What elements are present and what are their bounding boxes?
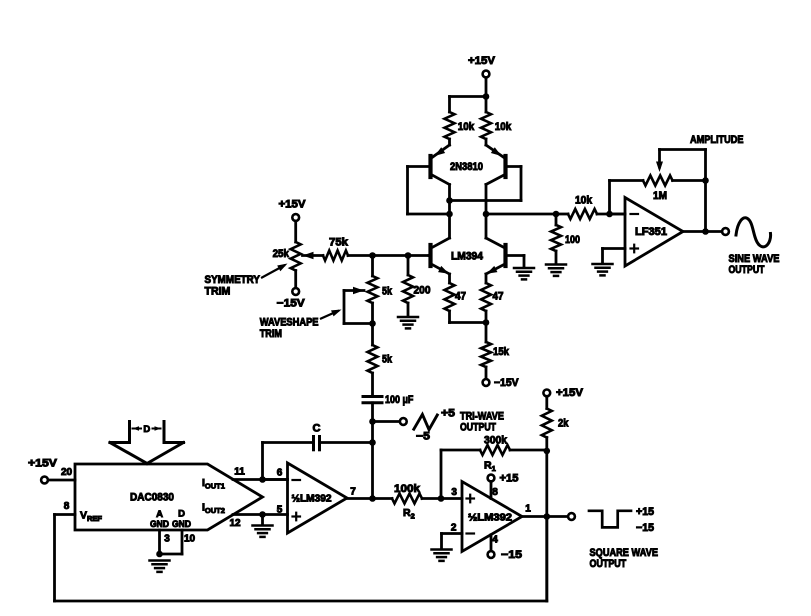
svg-text:+5: +5 — [441, 408, 455, 420]
svg-text:75k: 75k — [329, 237, 349, 249]
svg-text:+15: +15 — [636, 506, 654, 518]
svg-text:15k: 15k — [493, 346, 510, 358]
svg-text:3: 3 — [164, 534, 170, 545]
svg-text:47: 47 — [455, 291, 466, 303]
svg-text:100 μF: 100 μF — [385, 394, 414, 406]
svg-text:GND: GND — [150, 519, 169, 530]
svg-text:6: 6 — [277, 468, 283, 479]
svg-text:11: 11 — [234, 467, 245, 478]
svg-text:+15V: +15V — [28, 458, 58, 470]
svg-text:WAVESHAPE: WAVESHAPE — [260, 317, 319, 329]
svg-text:+15: +15 — [500, 473, 519, 485]
svg-text:8: 8 — [64, 501, 70, 512]
svg-text:+15V: +15V — [556, 387, 584, 399]
svg-text:12: 12 — [229, 518, 241, 529]
svg-text:100: 100 — [565, 234, 580, 246]
svg-text:2: 2 — [451, 523, 457, 534]
svg-text:8: 8 — [492, 487, 498, 498]
svg-text:47: 47 — [493, 291, 504, 303]
svg-text:C: C — [313, 423, 321, 435]
svg-text:D: D — [143, 424, 150, 435]
svg-text:AMPLITUDE: AMPLITUDE — [690, 134, 744, 146]
svg-text:OUTPUT: OUTPUT — [590, 558, 627, 570]
svg-text:100k: 100k — [394, 483, 421, 495]
svg-text:LM394: LM394 — [451, 251, 484, 263]
svg-text:OUTPUT: OUTPUT — [460, 422, 496, 434]
svg-text:DAC0830: DAC0830 — [130, 492, 174, 504]
svg-text:10k: 10k — [495, 121, 512, 133]
svg-text:D: D — [178, 509, 185, 520]
svg-text:10k: 10k — [458, 121, 475, 133]
svg-text:200: 200 — [414, 285, 431, 297]
svg-text:TRIM: TRIM — [260, 328, 282, 340]
svg-text:5k: 5k — [382, 354, 393, 366]
svg-text:−15: −15 — [501, 549, 522, 561]
svg-text:−15V: −15V — [494, 377, 519, 389]
svg-text:2N3810: 2N3810 — [450, 161, 483, 173]
svg-text:1: 1 — [525, 504, 531, 515]
svg-text:SYMMETRY: SYMMETRY — [205, 274, 261, 286]
svg-text:+15V: +15V — [468, 55, 496, 67]
svg-text:3: 3 — [451, 487, 457, 498]
svg-text:300k: 300k — [484, 435, 508, 447]
svg-text:−15V: −15V — [277, 298, 306, 310]
svg-text:+15V: +15V — [279, 199, 307, 211]
svg-text:20: 20 — [61, 467, 73, 478]
svg-text:−15: −15 — [636, 522, 654, 534]
svg-text:25k: 25k — [273, 248, 290, 260]
svg-text:GND: GND — [172, 519, 191, 530]
svg-text:LF351: LF351 — [635, 226, 667, 238]
svg-text:1M: 1M — [653, 190, 667, 202]
svg-text:−5: −5 — [416, 431, 430, 443]
svg-text:10: 10 — [184, 534, 196, 545]
svg-text:½LM392: ½LM392 — [292, 494, 332, 505]
svg-text:10k: 10k — [575, 195, 593, 207]
svg-text:½LM392: ½LM392 — [468, 513, 512, 524]
svg-text:5k: 5k — [382, 286, 393, 298]
svg-text:TRIM: TRIM — [205, 286, 231, 298]
svg-text:7: 7 — [350, 487, 356, 498]
svg-text:OUTPUT: OUTPUT — [729, 264, 765, 276]
svg-text:4: 4 — [492, 535, 498, 546]
svg-text:5: 5 — [277, 505, 283, 516]
svg-text:2k: 2k — [558, 418, 569, 430]
